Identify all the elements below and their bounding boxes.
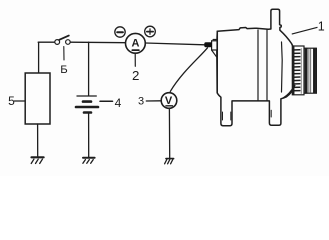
svg-text:Б: Б: [60, 64, 67, 76]
polarity plus circle: [145, 26, 156, 37]
wire ammeter to alternator terminal: [146, 43, 205, 45]
wire top-left vertical (box 5 to corner): [38, 42, 40, 73]
terminal blob: [204, 42, 212, 47]
terminal bracket: [212, 41, 217, 50]
load box 5: [25, 73, 50, 124]
switch Б (open knife switch): [55, 36, 70, 45]
switch label tick: [63, 47, 65, 61]
svg-text:2: 2: [132, 68, 139, 83]
pulley ribbed section: [292, 46, 304, 95]
alternator lug inner tick right: [230, 112, 232, 120]
ground (battery): [83, 158, 95, 164]
wire voltmeter to ground: [168, 108, 170, 158]
wire corner to switch: [38, 41, 55, 43]
alternator front face line: [281, 42, 284, 92]
battery GB (4): [76, 96, 98, 113]
alternator panel line 1: [257, 30, 259, 101]
svg-text:1: 1: [318, 20, 325, 34]
ammeter A (2): [125, 33, 145, 53]
alternator right lug inner tick: [270, 110, 272, 117]
alternator lug inner tick left: [222, 112, 224, 120]
voltmeter V (3): [161, 93, 177, 109]
svg-text:4: 4: [115, 96, 122, 110]
svg-text:3: 3: [138, 96, 144, 108]
pulley front flange: [304, 48, 316, 93]
wire box to ground: [37, 124, 39, 156]
wire switch to ammeter: [70, 41, 125, 44]
terminal upper tick: [213, 39, 217, 41]
wire junction battery branch: [88, 42, 90, 95]
wire battery to ground: [88, 114, 90, 157]
ground (voltmeter): [165, 159, 174, 164]
alternator silhouette over pulley (bottom-right curve): [283, 86, 294, 98]
wire label5 dash: [15, 100, 25, 102]
svg-text:A: A: [132, 37, 140, 49]
alternator left edge: [216, 31, 219, 93]
wire alternator terminal to voltmeter (curved): [170, 48, 207, 92]
alternator G (1) body outline: [217, 9, 296, 126]
label 1 leader line: [292, 27, 317, 34]
polarity minus circle: [115, 27, 125, 37]
terminal lower diagonal: [212, 50, 217, 56]
wire label3 dash to voltmeter: [146, 100, 161, 102]
alternator panel line 2: [266, 30, 268, 101]
ammeter label tick: [134, 54, 136, 67]
wire label4 dash: [100, 100, 113, 102]
svg-text:V: V: [165, 95, 173, 107]
ground (box 5): [31, 157, 43, 163]
